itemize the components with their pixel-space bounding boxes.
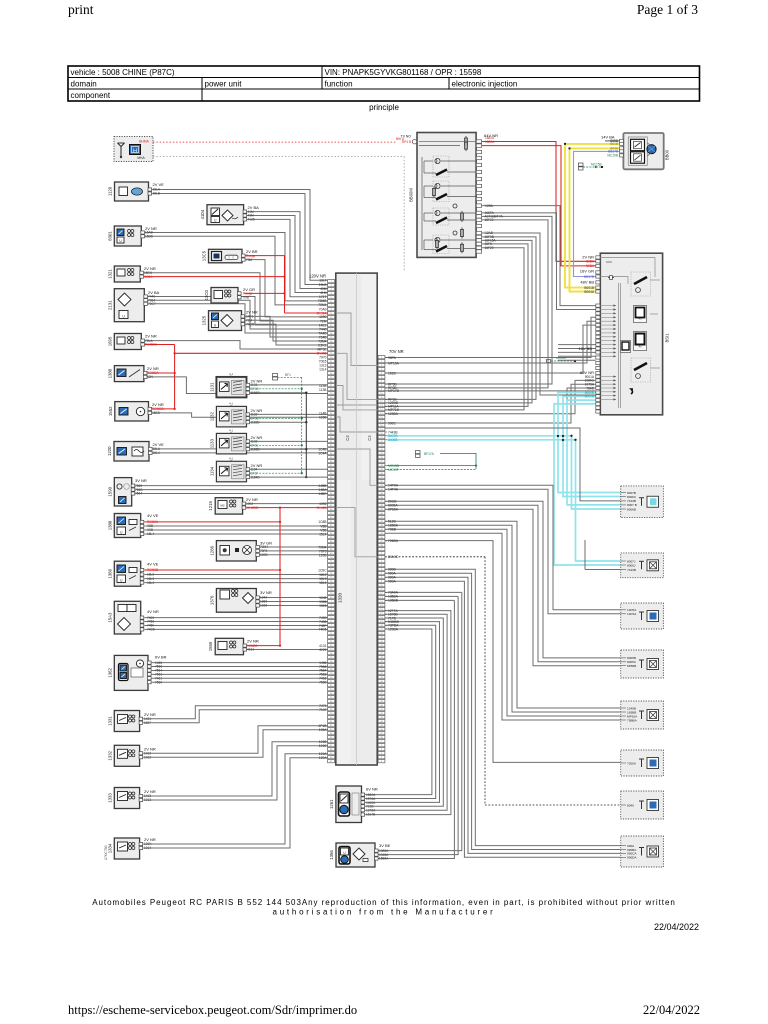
svg-text:1134: 1134	[209, 466, 214, 476]
svg-text:function: function	[325, 80, 353, 89]
svg-text:9K MBB: 9K MBB	[246, 506, 258, 510]
svg-text:101S: 101S	[319, 744, 328, 748]
svg-text:15EB: 15EB	[152, 411, 160, 415]
svg-text:MC15F: MC15F	[388, 468, 399, 472]
svg-text:50BA: 50BA	[586, 260, 595, 264]
svg-text:129BA: 129BA	[388, 627, 399, 631]
svg-text:70V NR: 70V NR	[389, 349, 404, 354]
svg-text:1C4A: 1C4A	[318, 451, 327, 455]
svg-text:B01B: B01B	[610, 142, 618, 146]
svg-text:73M: 73M	[246, 258, 253, 262]
svg-text:domain: domain	[71, 80, 97, 89]
svg-text:BF1: BF1	[285, 373, 291, 377]
svg-text:18L4: 18L4	[147, 581, 154, 585]
svg-text:1286: 1286	[209, 545, 214, 555]
svg-text:VIN: PNAPK5GYVKG801168 / OPR :: VIN: PNAPK5GYVKG801168 / OPR : 15598	[325, 68, 482, 77]
svg-text:2V NR: 2V NR	[247, 639, 259, 644]
svg-text:1321: 1321	[107, 269, 112, 279]
svg-text:8P86A: 8P86A	[388, 508, 399, 512]
svg-text:1261: 1261	[329, 799, 334, 809]
svg-text:1332: 1332	[107, 750, 112, 760]
svg-text:74D5: 74D5	[147, 628, 155, 632]
svg-text:13L4: 13L4	[319, 368, 327, 372]
svg-text:1181D: 1181D	[251, 391, 261, 395]
svg-text:1617B: 1617B	[366, 813, 375, 817]
svg-text:72C7: 72C7	[148, 302, 156, 306]
svg-text:A7MC7B0: A7MC7B0	[104, 845, 108, 860]
svg-text:990A: 990A	[388, 580, 397, 584]
svg-text:4131: 4131	[247, 648, 254, 652]
svg-text:BF17A: BF17A	[424, 452, 435, 456]
svg-text:1C8C: 1C8C	[318, 568, 327, 572]
svg-text:1014: 1014	[144, 846, 151, 850]
svg-text:H: H	[133, 148, 137, 154]
svg-text:BHMA: BHMA	[139, 140, 150, 144]
svg-text:74D5: 74D5	[319, 628, 327, 632]
svg-text:1559: 1559	[208, 641, 213, 651]
svg-text:1380: 1380	[107, 368, 112, 378]
svg-text:1315: 1315	[260, 604, 267, 608]
svg-text:2V NR: 2V NR	[145, 334, 157, 339]
svg-text:1552: 1552	[108, 406, 113, 416]
svg-text:V9B: V9B	[243, 296, 249, 300]
svg-text:MP10A: MP10A	[388, 361, 400, 365]
svg-text:120B: 120B	[260, 553, 267, 557]
svg-text:2V VE: 2V VE	[153, 182, 165, 187]
svg-text:BSI1: BSI1	[665, 333, 670, 343]
svg-text:4-1: 4-1	[229, 428, 233, 432]
svg-text:1325: 1325	[202, 315, 207, 325]
svg-text:1333: 1333	[107, 793, 112, 803]
svg-text:13C0: 13C0	[204, 290, 209, 301]
svg-text:BB00M: BB00M	[409, 188, 414, 202]
svg-text:15LB: 15LB	[153, 192, 160, 196]
svg-text:161B: 161B	[388, 371, 397, 375]
svg-text:1013: 1013	[144, 798, 151, 802]
svg-text:C4: C4	[345, 435, 350, 441]
svg-text:74QB: 74QB	[246, 322, 254, 326]
svg-text:1695: 1695	[107, 336, 112, 346]
svg-text:80A0C: 80A0C	[388, 555, 399, 559]
svg-text:1133: 1133	[209, 438, 214, 448]
svg-text:1220: 1220	[107, 446, 112, 456]
svg-text:98PA: 98PA	[388, 356, 397, 360]
svg-text:8040: 8040	[627, 803, 634, 807]
svg-text:4V NR: 4V NR	[147, 609, 159, 614]
svg-text:8006C: 8006C	[627, 495, 637, 499]
svg-text:4x: 4x	[638, 317, 642, 321]
svg-text:'12BA: '12BA	[485, 204, 494, 208]
svg-text:1588A: 1588A	[379, 857, 389, 861]
svg-text:4121: 4121	[319, 648, 327, 652]
svg-text:79BBA: 79BBA	[627, 718, 638, 722]
svg-text:9K MB: 9K MB	[317, 506, 328, 510]
svg-text:48V BB: 48V BB	[580, 280, 594, 285]
svg-text:6V BR: 6V BR	[155, 655, 167, 660]
svg-text:MHA: MHA	[137, 156, 145, 160]
svg-text:15L4: 15L4	[153, 451, 160, 455]
svg-text:6V NR: 6V NR	[366, 787, 378, 792]
svg-text:authorisation from the Manufac: authorisation from the Manufacturer	[273, 908, 496, 917]
svg-text:SC8A: SC8A	[144, 275, 153, 279]
svg-text:15A3: 15A3	[107, 612, 112, 623]
svg-text:4104: 4104	[200, 209, 205, 219]
svg-text:vehicle : 5008 CHINE (P87C): vehicle : 5008 CHINE (P87C)	[71, 68, 175, 77]
svg-text:120B: 120B	[319, 553, 328, 557]
svg-text:1320: 1320	[338, 592, 343, 603]
svg-text:1182D: 1182D	[251, 420, 261, 424]
svg-text:1315: 1315	[319, 604, 327, 608]
svg-text:14BC: 14BC	[318, 492, 327, 496]
svg-text:4-1: 4-1	[229, 372, 233, 376]
svg-text:electronic injection: electronic injection	[452, 80, 518, 89]
svg-text:105A: 105A	[319, 728, 328, 732]
svg-text:BB17B: BB17B	[584, 275, 594, 279]
svg-text:1120: 1120	[108, 186, 113, 196]
svg-text:15BB: 15BB	[145, 235, 153, 239]
svg-text:1012: 1012	[144, 755, 151, 759]
svg-text:15L4: 15L4	[147, 532, 154, 536]
svg-text:7443B: 7443B	[627, 568, 636, 572]
svg-text:3V BE: 3V BE	[379, 843, 391, 848]
svg-text:16V GR: 16V GR	[580, 269, 594, 274]
svg-text:1215: 1215	[208, 501, 213, 511]
svg-text:4-1: 4-1	[229, 456, 233, 460]
svg-text:4x: 4x	[638, 345, 642, 349]
svg-text:16F20: 16F20	[485, 246, 494, 250]
svg-text:1362: 1362	[107, 668, 112, 678]
svg-text:3V NR: 3V NR	[260, 590, 272, 595]
svg-text:123BA: 123BA	[388, 412, 399, 416]
svg-text:MC15B: MC15B	[607, 154, 618, 158]
svg-text:MC050: MC050	[556, 356, 566, 360]
svg-text:115B: 115B	[319, 416, 327, 420]
svg-text:22/04/2022: 22/04/2022	[643, 1003, 700, 1017]
svg-text:113B: 113B	[319, 388, 327, 392]
svg-text:RCMDC: RCMDC	[145, 343, 158, 347]
svg-text:990DA: 990DA	[627, 856, 637, 860]
svg-text:4-1: 4-1	[229, 401, 233, 405]
svg-text:power unit: power unit	[205, 80, 243, 89]
svg-text:7300A: 7300A	[627, 761, 637, 765]
svg-text:1187: 1187	[144, 721, 151, 725]
svg-text:8301: 8301	[107, 231, 112, 241]
svg-text:MP17B: MP17B	[388, 389, 400, 393]
svg-text:1389: 1389	[107, 568, 112, 578]
svg-text:B004A: B004A	[584, 290, 594, 294]
svg-text:1334: 1334	[107, 843, 112, 853]
svg-text:1376: 1376	[209, 595, 214, 605]
svg-text:BB00: BB00	[665, 149, 670, 160]
svg-text:1388: 1388	[107, 520, 112, 530]
svg-text:18L4: 18L4	[319, 581, 327, 585]
svg-text:1590: 1590	[107, 486, 112, 496]
svg-text:BHI A: BHI A	[396, 137, 405, 141]
svg-text:8P86B: 8P86B	[627, 664, 636, 668]
svg-text:Automobiles Peugeot RC PARIS B: Automobiles Peugeot RC PARIS B 552 144 5…	[92, 898, 676, 907]
svg-text:1331: 1331	[107, 716, 112, 726]
svg-text:14P4A: 14P4A	[627, 612, 637, 616]
svg-text:4V VE: 4V VE	[147, 562, 159, 567]
svg-text:7107: 7107	[319, 708, 327, 712]
svg-text:8001B: 8001B	[585, 395, 594, 399]
svg-text:15L4: 15L4	[319, 532, 327, 536]
svg-text:component: component	[71, 91, 111, 100]
svg-text:14P4A: 14P4A	[388, 488, 399, 492]
svg-text:990C: 990C	[388, 421, 397, 425]
svg-text:1183D: 1183D	[251, 447, 261, 451]
svg-text:7560: 7560	[319, 681, 327, 685]
svg-text:13C5: 13C5	[202, 250, 207, 261]
svg-text:122A: 122A	[319, 756, 328, 760]
svg-text:16V BB: 16V BB	[578, 346, 592, 351]
svg-text:print: print	[68, 2, 94, 17]
svg-text:MC15B: MC15B	[591, 163, 602, 167]
svg-text:M2: M2	[220, 504, 224, 508]
svg-text:726BA: 726BA	[388, 539, 399, 543]
svg-text:RCM0B: RCM0B	[147, 568, 158, 572]
svg-text:78AB: 78AB	[586, 386, 594, 390]
svg-text:22/04/2022: 22/04/2022	[654, 922, 699, 932]
svg-text:1184D: 1184D	[251, 475, 261, 479]
svg-text:4V VE: 4V VE	[147, 513, 159, 518]
svg-text:16F12: 16F12	[485, 218, 494, 222]
svg-text:1356: 1356	[329, 850, 334, 860]
svg-text:1131: 1131	[209, 382, 214, 392]
svg-text:7560: 7560	[155, 680, 162, 684]
svg-text:1680A: 1680A	[485, 140, 495, 144]
svg-text:3V NR: 3V NR	[135, 478, 147, 483]
svg-text:79BB: 79BB	[388, 528, 397, 532]
svg-text:https://escheme-servicebox.peu: https://escheme-servicebox.peugeot.com/S…	[68, 1003, 357, 1017]
svg-text:7564: 7564	[135, 492, 142, 496]
svg-text:Page 1 of 3: Page 1 of 3	[637, 2, 698, 17]
svg-text:136BB: 136BB	[388, 599, 399, 603]
svg-text:4135: 4135	[248, 218, 255, 222]
svg-text:principle: principle	[369, 103, 399, 112]
svg-text:64V NR: 64V NR	[484, 133, 498, 138]
svg-text:8006J: 8006J	[627, 563, 636, 567]
svg-text:8006B: 8006B	[627, 507, 636, 511]
svg-text:C4: C4	[367, 435, 372, 441]
svg-text:52N: 52N	[147, 375, 154, 379]
svg-text:8006B: 8006B	[388, 438, 398, 442]
svg-text:1132: 1132	[209, 411, 214, 421]
svg-text:2131: 2131	[107, 300, 112, 310]
